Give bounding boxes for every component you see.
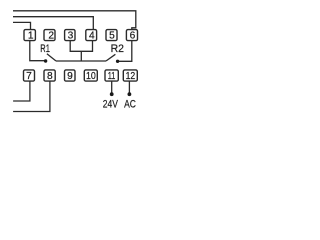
terminal 6 box — [126, 30, 137, 41]
terminal 9 box — [65, 70, 76, 81]
wire terminal 3 and 4 tie bar — [70, 41, 92, 52]
terminal 8 box — [44, 70, 55, 81]
terminal 12 box — [123, 70, 137, 81]
relay contact R2 pole dot — [116, 60, 119, 63]
svg-text:2: 2 — [48, 31, 54, 42]
svg-text:1: 1 — [28, 31, 34, 42]
terminal 1 box — [24, 30, 35, 41]
terminal 2 box — [44, 30, 55, 41]
terminal 3 box — [65, 30, 75, 41]
svg-text:7: 7 — [26, 71, 32, 82]
svg-text:11: 11 — [108, 71, 116, 82]
svg-text:5: 5 — [109, 31, 115, 42]
wire terminal 7 stub — [13, 81, 30, 101]
svg-text:8: 8 — [47, 71, 53, 82]
wire terminal 1 to R1 contact — [30, 41, 44, 61]
svg-text:4: 4 — [89, 31, 95, 42]
svg-text:9: 9 — [67, 71, 73, 82]
node AC supply dot — [127, 92, 131, 96]
relay contact R1 pole dot — [44, 59, 47, 62]
wire R2 contact to terminal 6 — [119, 41, 132, 62]
terminal 5 box — [106, 30, 117, 41]
wire supply line to terminal 4 — [13, 17, 93, 30]
wire terminal 8 stub — [13, 81, 50, 111]
node 24V supply dot — [110, 92, 114, 96]
svg-text:12: 12 — [126, 71, 136, 82]
svg-text:3: 3 — [68, 31, 74, 42]
relay contact R2 arm — [106, 54, 115, 61]
wire common bar R1 arm to R2 arm — [56, 60, 106, 62]
terminal 11 box — [105, 70, 118, 81]
wire junction riser from common bar — [80, 51, 82, 61]
wire terminal 12 lead — [128, 81, 130, 93]
wire terminal 11 lead — [111, 81, 113, 93]
svg-text:6: 6 — [130, 31, 136, 42]
terminal 10 box — [84, 70, 97, 81]
svg-text:AC: AC — [124, 99, 136, 111]
svg-text:24V: 24V — [103, 99, 119, 111]
svg-text:10: 10 — [86, 71, 96, 82]
wire supply line to terminal 6 — [13, 11, 136, 30]
terminal 7 box — [24, 70, 35, 81]
relay contact R1 arm — [47, 54, 56, 61]
terminal 4 box — [86, 30, 97, 41]
svg-text:R1: R1 — [40, 43, 50, 55]
wire supply line to terminal 1 — [13, 22, 31, 29]
svg-text:R2: R2 — [111, 43, 124, 55]
